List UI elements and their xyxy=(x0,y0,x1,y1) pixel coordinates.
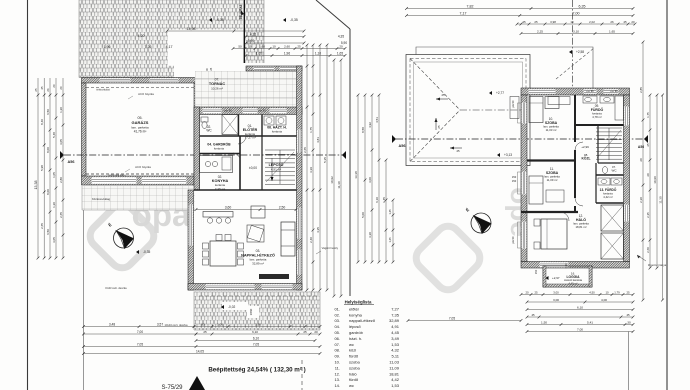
furniture: sofa xyxy=(281,222,295,256)
svg-text:HÁLÓ: HÁLÓ xyxy=(576,217,586,222)
svg-text:1,65: 1,65 xyxy=(609,29,615,33)
rp left chain 5 xyxy=(385,160,387,262)
watermark logo + text left xyxy=(85,196,191,273)
svg-text:7,17: 7,17 xyxy=(460,11,467,15)
svg-text:3,05: 3,05 xyxy=(59,139,63,145)
svg-text:10: 10 xyxy=(605,290,609,294)
svg-text:150: 150 xyxy=(534,269,538,274)
svg-text:20: 20 xyxy=(314,330,318,334)
svg-text:3,60: 3,60 xyxy=(225,205,232,209)
rp bottom row3 xyxy=(527,309,633,311)
svg-text:szoba: szoba xyxy=(349,365,360,370)
svg-text:pm 90: pm 90 xyxy=(512,100,515,107)
wall: house right xyxy=(297,66,303,290)
svg-text:150: 150 xyxy=(512,175,517,179)
furniture: háló bed xyxy=(541,219,567,249)
window: rp bottom door xyxy=(540,262,569,267)
svg-text:07.: 07. xyxy=(334,342,340,347)
svg-text:nappali-étkező: nappali-étkező xyxy=(349,318,376,323)
north arrow left plan xyxy=(114,228,134,248)
furniture: szoba11 bed xyxy=(529,176,543,204)
svg-text:14.: 14. xyxy=(334,383,340,388)
door arc konyha xyxy=(233,153,240,160)
svg-text:-0,02: -0,02 xyxy=(228,305,235,309)
left chain v2 xyxy=(43,78,45,258)
svg-text:1,10: 1,10 xyxy=(315,51,321,55)
partition: below entry row xyxy=(200,135,297,137)
svg-text:6,10: 6,10 xyxy=(253,336,259,340)
top chain row2 left plan xyxy=(246,55,345,57)
svg-text:pm 90: pm 90 xyxy=(586,89,594,93)
fixture: hazt machines xyxy=(264,116,274,125)
wall: rp bottom xyxy=(521,262,630,269)
rp right chain 4 xyxy=(662,95,664,300)
svg-text:6,50: 6,50 xyxy=(46,229,50,235)
furniture: chairs xyxy=(203,243,209,249)
svg-text:07.: 07. xyxy=(215,78,220,82)
fixture: kitchen counter xyxy=(200,156,233,173)
svg-text:25: 25 xyxy=(437,125,441,129)
rp top dim 7,17/7,00 xyxy=(407,15,634,17)
svg-text:7,35 m²: 7,35 m² xyxy=(215,187,225,191)
fixture: fürdö09 sinks xyxy=(583,96,597,103)
svg-text:20: 20 xyxy=(52,84,56,88)
svg-text:32,89 m²: 32,89 m² xyxy=(252,261,264,265)
svg-text:8,40: 8,40 xyxy=(40,119,44,125)
furniture: szoba10 desk xyxy=(548,97,570,105)
rp left small ticks xyxy=(392,200,394,262)
svg-text:közl: közl xyxy=(349,348,356,353)
partition: vertical main xyxy=(574,95,576,142)
svg-text:1,05: 1,05 xyxy=(52,172,56,178)
svg-text:2,80: 2,80 xyxy=(59,177,63,183)
svg-text:4,91: 4,91 xyxy=(391,324,400,329)
rp bottom row6 xyxy=(527,324,633,326)
fixture: fürdö09 tub xyxy=(615,96,624,120)
svg-text:6,10: 6,10 xyxy=(375,197,379,203)
svg-text:25: 25 xyxy=(534,20,538,24)
svg-text:13. FÜRDŐ: 13. FÜRDŐ xyxy=(600,187,617,192)
svg-text:32,89: 32,89 xyxy=(389,318,400,323)
svg-text:1,45: 1,45 xyxy=(382,197,386,203)
svg-text:+2,77: +2,77 xyxy=(496,91,504,95)
window: garage bottom doors xyxy=(92,177,137,184)
roof hip diagonal down xyxy=(410,110,460,162)
svg-text:25: 25 xyxy=(456,149,460,153)
roof inner rect 2 xyxy=(414,62,523,158)
svg-text:gardrób: gardrób xyxy=(349,330,364,335)
svg-text:11.: 11. xyxy=(335,365,340,370)
rp right chain 2 xyxy=(649,95,651,268)
svg-text:6,35: 6,35 xyxy=(579,4,586,8)
svg-text:7,00: 7,00 xyxy=(577,327,583,331)
svg-text:5,90: 5,90 xyxy=(248,39,254,43)
section line A-A right plan xyxy=(396,138,648,140)
rp top dim 7,82/6,35 xyxy=(407,8,634,10)
wall: porch top xyxy=(246,66,302,71)
footer dashed line xyxy=(301,360,303,390)
wall: kitchen left strip xyxy=(194,107,200,190)
svg-text:1,75: 1,75 xyxy=(309,127,313,133)
rp bottom row1 xyxy=(521,294,633,296)
svg-text:13,38: 13,38 xyxy=(354,171,358,179)
svg-text:-0,35: -0,35 xyxy=(290,18,298,22)
terrace white gaps xyxy=(222,302,248,310)
svg-text:5,41: 5,41 xyxy=(587,320,593,324)
top chain rows left plan xyxy=(233,48,345,50)
svg-text:FÜRDŐ: FÜRDŐ xyxy=(591,107,604,112)
terrace edges xyxy=(194,329,320,331)
svg-text:7,35: 7,35 xyxy=(391,312,400,317)
wall: living bottom xyxy=(188,284,302,291)
wall: garage right xyxy=(194,83,200,190)
plot boundary middle vertical xyxy=(349,29,351,296)
svg-text:±0,00: ±0,00 xyxy=(249,166,257,170)
svg-text:4,92: 4,92 xyxy=(368,122,372,128)
partition: szoba10 bottom xyxy=(527,159,575,161)
svg-text:25: 25 xyxy=(646,143,650,147)
rp left chain 2 xyxy=(364,95,366,262)
svg-text:fürdő: fürdő xyxy=(349,354,359,359)
wall: garage left xyxy=(82,83,87,176)
rp right chain 1 xyxy=(642,42,644,300)
svg-text:2,35: 2,35 xyxy=(646,212,650,218)
furniture: rp top closet X xyxy=(510,97,519,119)
window sills rp left xyxy=(518,103,522,123)
svg-text:pm 90: pm 90 xyxy=(258,109,266,113)
svg-text:2,60: 2,60 xyxy=(284,44,290,48)
svg-text:konyha: konyha xyxy=(349,312,363,317)
svg-text:A56: A56 xyxy=(638,145,644,149)
window: house right wins xyxy=(297,130,301,153)
stairs: right plan xyxy=(596,127,622,129)
svg-text:szoba: szoba xyxy=(349,360,360,365)
svg-text:20: 20 xyxy=(646,173,650,177)
plot boundary middle diagonal xyxy=(316,0,350,29)
svg-text:3,00: 3,00 xyxy=(553,290,559,294)
svg-text:3,95: 3,95 xyxy=(255,322,261,326)
svg-text:1,06: 1,06 xyxy=(217,322,223,326)
svg-text:45: 45 xyxy=(626,313,630,317)
svg-text:03.: 03. xyxy=(334,318,340,323)
svg-text:háló: háló xyxy=(349,371,357,376)
svg-text:150: 150 xyxy=(512,179,517,183)
wall: loggia border xyxy=(543,266,592,287)
svg-text:05.: 05. xyxy=(334,330,340,335)
svg-text:1,65: 1,65 xyxy=(337,51,343,55)
svg-text:11,09: 11,09 xyxy=(389,365,399,370)
svg-text:3,49: 3,49 xyxy=(391,336,400,341)
svg-text:2,65: 2,65 xyxy=(59,212,63,218)
svg-text:2,85: 2,85 xyxy=(639,87,643,93)
paving edge lines xyxy=(78,0,80,78)
svg-text:2,65: 2,65 xyxy=(303,147,307,153)
svg-text:4,00: 4,00 xyxy=(601,298,607,302)
svg-text:3,98: 3,98 xyxy=(550,20,556,24)
lp right chain 5 xyxy=(333,60,335,296)
section line A-A left plan xyxy=(64,154,345,156)
label A56 right-end xyxy=(644,135,648,143)
window: garage top xyxy=(100,78,131,82)
furniture: rug diamond xyxy=(247,225,264,242)
footer: north triangle xyxy=(189,376,205,390)
svg-text:LÉPCSŐ: LÉPCSŐ xyxy=(269,162,284,167)
svg-text:3,30: 3,30 xyxy=(368,232,372,238)
svg-text:6,10: 6,10 xyxy=(252,330,258,334)
partition: szoba11 bottom xyxy=(521,211,578,213)
window: porch bottom xyxy=(203,108,222,113)
window: living bottom doors xyxy=(206,284,255,289)
rp bottom row4 7,05 xyxy=(408,320,521,322)
svg-text:50: 50 xyxy=(238,44,242,48)
furniture: media bar xyxy=(259,274,289,279)
partition: gardrob bottom xyxy=(200,153,241,155)
plot boundary left xyxy=(27,0,29,390)
svg-text:10.: 10. xyxy=(334,360,340,365)
svg-text:2,30: 2,30 xyxy=(639,197,643,203)
dim 14,98 xyxy=(167,30,304,32)
plot boundary right xyxy=(666,0,668,390)
svg-text:20: 20 xyxy=(631,20,635,24)
svg-text:pm 90: pm 90 xyxy=(610,89,618,93)
rp centerline vertical xyxy=(572,0,574,95)
partition: fürdö09 bottom xyxy=(575,124,624,126)
svg-text:1,45: 1,45 xyxy=(388,237,392,243)
svg-text:02.: 02. xyxy=(334,312,340,317)
svg-text:+2,99: +2,99 xyxy=(581,145,589,149)
svg-text:3,00: 3,00 xyxy=(368,177,372,183)
svg-text:Helyiséglista: Helyiséglista xyxy=(345,300,372,305)
svg-text:SZOBA: SZOBA xyxy=(545,121,558,125)
svg-text:7,05: 7,05 xyxy=(253,342,259,346)
svg-text:45: 45 xyxy=(531,313,535,317)
window: porch top xyxy=(254,67,275,71)
svg-text:TORNÁC: TORNÁC xyxy=(209,81,225,86)
svg-text:1,20: 1,20 xyxy=(59,107,63,113)
svg-text:11,03 m²: 11,03 m² xyxy=(546,128,557,132)
storey-below outline xyxy=(416,47,593,88)
left chain v1 xyxy=(37,78,39,258)
dim interior 3,60/2,50 xyxy=(196,209,296,211)
svg-text:93: 93 xyxy=(201,322,205,326)
svg-text:6,50: 6,50 xyxy=(46,109,50,115)
rp top chain 2 xyxy=(521,33,633,35)
svg-text:4,42 m²: 4,42 m² xyxy=(603,195,613,199)
svg-text:8,58: 8,58 xyxy=(361,127,365,133)
rp bottom row7 xyxy=(527,331,633,333)
roof slope arrow up xyxy=(435,118,437,130)
partition: konyha bottom / living top xyxy=(194,189,297,191)
svg-text:3,39: 3,39 xyxy=(309,167,313,173)
paving: apron below garage xyxy=(82,186,195,210)
svg-text:12.: 12. xyxy=(334,371,340,376)
partition: fürdö13 bottom xyxy=(596,202,624,204)
svg-text:5,98: 5,98 xyxy=(40,165,44,171)
svg-text:09.: 09. xyxy=(334,354,340,359)
svg-text:45: 45 xyxy=(40,86,44,90)
svg-text:25: 25 xyxy=(626,290,630,294)
svg-text:2,65: 2,65 xyxy=(40,223,44,229)
svg-text:1,79: 1,79 xyxy=(614,290,620,294)
svg-text:4,91 m²: 4,91 m² xyxy=(271,168,281,172)
roof outer rect xyxy=(406,55,530,166)
svg-text:+3,13: +3,13 xyxy=(504,153,512,157)
svg-text:KÖZL: KÖZL xyxy=(582,157,591,161)
svg-text:pm 90: pm 90 xyxy=(512,236,515,243)
svg-text:5,35: 5,35 xyxy=(323,157,327,163)
svg-text:A56: A56 xyxy=(68,160,75,164)
wall: living left xyxy=(188,190,194,290)
dashed eaves over garage xyxy=(86,173,194,175)
wall: garage bottom xyxy=(82,176,195,185)
wall: garage top xyxy=(82,78,200,84)
svg-text:térburkolat: térburkolat xyxy=(96,88,109,92)
lp bottom chain row4 xyxy=(84,346,321,348)
rp bottom row2 xyxy=(527,301,633,303)
apron edge xyxy=(82,209,195,211)
lp right chain 3 xyxy=(319,45,321,290)
svg-text:1,75: 1,75 xyxy=(646,112,650,118)
svg-text:3,10: 3,10 xyxy=(573,29,579,33)
furniture: bar with stools xyxy=(203,212,233,218)
window: living left xyxy=(189,205,193,246)
roof slope arrow low xyxy=(450,147,462,149)
svg-text:5,48: 5,48 xyxy=(52,132,56,138)
label A56 right xyxy=(392,135,396,143)
window: rp left wins xyxy=(522,103,527,124)
svg-text:4,45: 4,45 xyxy=(391,330,400,335)
rp right chain 3 xyxy=(656,95,658,268)
wall: rp top xyxy=(521,88,630,95)
lp bottom row1b xyxy=(194,326,320,328)
svg-text:2,25: 2,25 xyxy=(537,29,543,33)
svg-text:1,53: 1,53 xyxy=(391,383,400,388)
paving: driveway left block xyxy=(79,30,174,78)
rp bottom vertical ref xyxy=(628,332,630,390)
svg-text:4,49 m²: 4,49 m² xyxy=(568,281,577,285)
rp left chain 1 xyxy=(357,95,359,262)
svg-text:1,20: 1,20 xyxy=(52,202,56,208)
svg-text:7,05: 7,05 xyxy=(137,342,143,346)
lp right chain 2 xyxy=(312,45,314,290)
top chain row 5,90 xyxy=(246,42,304,44)
svg-text:4,42: 4,42 xyxy=(391,377,400,382)
lp bottom chain row2 xyxy=(84,333,197,335)
roof slope arrow left xyxy=(436,98,448,100)
paving: walk strip xyxy=(245,0,264,63)
svg-text:A56: A56 xyxy=(399,144,406,148)
svg-text:7,05: 7,05 xyxy=(449,316,455,320)
svg-text:01.: 01. xyxy=(334,306,340,311)
svg-text:1860: 1860 xyxy=(249,308,253,315)
svg-text:25: 25 xyxy=(203,330,207,334)
svg-text:4,35: 4,35 xyxy=(338,35,344,39)
svg-text:1,50: 1,50 xyxy=(564,263,568,269)
svg-text:4,51: 4,51 xyxy=(375,117,379,123)
door arc elöter xyxy=(238,136,246,144)
svg-text:25: 25 xyxy=(34,88,38,92)
svg-text:20: 20 xyxy=(339,44,343,48)
svg-text:20: 20 xyxy=(639,158,643,162)
svg-text:8,00: 8,00 xyxy=(46,189,50,195)
dashed terrace line xyxy=(199,295,318,297)
roof ridge xyxy=(460,109,521,111)
svg-text:házt. h.: házt. h. xyxy=(349,336,362,341)
svg-text:4,35: 4,35 xyxy=(316,227,320,233)
svg-text:2,40: 2,40 xyxy=(309,237,313,243)
svg-text:wc: wc xyxy=(349,342,354,347)
svg-text:5,11: 5,11 xyxy=(392,354,400,359)
label A56 left xyxy=(60,151,64,159)
svg-text:25: 25 xyxy=(441,93,445,97)
svg-text:5,00: 5,00 xyxy=(361,212,365,218)
svg-text:Kő43 oszt. deszka: Kő43 oszt. deszka xyxy=(105,286,127,290)
svg-text:kerámia: kerámia xyxy=(272,130,282,134)
svg-text:45: 45 xyxy=(522,20,526,24)
svg-text:Kőzárat+bálag: Kőzárat+bálag xyxy=(92,197,111,201)
svg-text:1,50: 1,50 xyxy=(541,320,547,324)
svg-text:4,78 m²: 4,78 m² xyxy=(592,115,602,119)
svg-text:1,05: 1,05 xyxy=(256,51,262,55)
svg-text:1,96: 1,96 xyxy=(284,51,290,55)
svg-text:11,30: 11,30 xyxy=(658,196,662,204)
svg-text:+2,58: +2,58 xyxy=(576,50,584,54)
partition: wc/fürdö13 xyxy=(596,174,624,176)
svg-text:11,03: 11,03 xyxy=(389,360,399,365)
svg-text:7,27: 7,27 xyxy=(391,306,400,311)
svg-text:10,92: 10,92 xyxy=(330,176,334,184)
svg-text:lépcső: lépcső xyxy=(349,324,361,329)
svg-text:WC: WC xyxy=(612,169,618,173)
svg-text:30: 30 xyxy=(627,320,631,324)
svg-text:GARÁZS: GARÁZS xyxy=(132,120,149,125)
watermark logo + text right xyxy=(411,187,536,295)
fixture: fürdö13 sinks xyxy=(598,178,610,185)
left chain v5 xyxy=(62,78,64,258)
svg-text:25: 25 xyxy=(297,44,301,48)
lp bottom chain row5 xyxy=(84,353,321,355)
svg-text:3,57: 3,57 xyxy=(157,322,163,326)
rp left chain 3 xyxy=(371,95,373,262)
svg-text:13.: 13. xyxy=(334,377,340,382)
svg-text:7,82: 7,82 xyxy=(467,4,474,8)
paving: driveway top band xyxy=(79,0,243,30)
svg-text:3,48: 3,48 xyxy=(109,322,115,326)
svg-text:kerámia: kerámia xyxy=(214,147,224,151)
svg-text:14,05: 14,05 xyxy=(196,349,204,353)
svg-text:4,20: 4,20 xyxy=(138,34,145,38)
svg-text:+2,97: +2,97 xyxy=(552,276,560,280)
svg-text:7,00: 7,00 xyxy=(573,11,580,15)
label A56 left-end right xyxy=(342,151,346,159)
plot inner line left xyxy=(83,190,85,390)
svg-text:4,17: 4,17 xyxy=(166,45,173,49)
dim box (white) over paving xyxy=(168,30,240,66)
door arcs rp xyxy=(575,142,583,150)
svg-text:13,38: 13,38 xyxy=(34,181,38,190)
rp bottom row5 xyxy=(527,316,633,318)
svg-text:7,26: 7,26 xyxy=(145,45,152,49)
window: rp top wins xyxy=(529,89,556,94)
window: rp right wins xyxy=(624,107,629,126)
left chain v4 xyxy=(55,78,57,258)
paving: porch tiles xyxy=(195,71,297,107)
svg-text:04.: 04. xyxy=(334,324,340,329)
fixture: wc xyxy=(201,117,208,122)
partition: elöter/hazt vertical xyxy=(261,115,263,137)
svg-text:WC: WC xyxy=(206,129,212,133)
stairs: left plan treads xyxy=(265,149,295,151)
